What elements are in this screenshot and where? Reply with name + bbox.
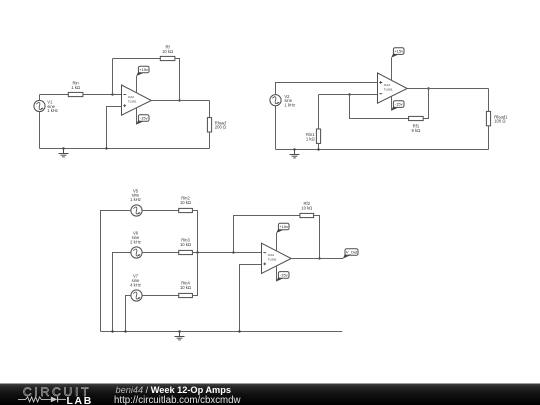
wire down to Rin1 [318, 95, 320, 130]
wire V+ pin OA3 [391, 58, 393, 81]
wire bottom rail circuit2 [276, 149, 489, 151]
wire Rf2 to output node [314, 216, 320, 259]
svg-text:10 kΩ: 10 kΩ [180, 242, 191, 247]
footer bar [0, 384, 540, 405]
svg-text:100 Ω: 100 Ω [494, 119, 505, 124]
svg-text:1 kHz: 1 kHz [47, 108, 58, 113]
svg-text:10 kΩ: 10 kΩ [180, 285, 191, 290]
wire non-inverting input OA4 to rail [240, 265, 262, 332]
svg-text:-15v: -15v [140, 116, 148, 121]
svg-text:2 kHz: 2 kHz [130, 239, 141, 244]
node junction ground node circuit3 [178, 330, 180, 332]
wire V2 top to non-inverting input [276, 83, 378, 95]
voltage source V1 [34, 100, 45, 111]
+15v supply flag OA4 [276, 223, 289, 233]
-15v supply flag OA3 [391, 101, 404, 111]
svg-text:9 kΩ: 9 kΩ [412, 128, 421, 133]
V_Out net flag [343, 249, 358, 259]
svg-text:1 kHz: 1 kHz [284, 102, 295, 107]
wire V- pin OA4 [276, 266, 278, 282]
svg-text:+15v: +15v [279, 224, 288, 229]
wire V+ pin OA2 [136, 76, 138, 93]
wire V7 to Rin4 [142, 295, 179, 297]
V6 label: V6 sine 2 kHz [130, 231, 141, 245]
svg-text:4 kHz: 4 kHz [130, 282, 141, 287]
node junction bus joins input line [196, 251, 198, 253]
svg-text:10 kΩ: 10 kΩ [180, 200, 191, 205]
node junction output node OA4 [318, 257, 320, 259]
node junction feedback tap OA3 [348, 93, 350, 95]
Rin1 label: Rin1 1 kΩ [306, 132, 315, 141]
node junction inverting input node [111, 93, 113, 95]
wire Rload1 bottom lead [488, 126, 490, 150]
resistor Rf2 [300, 213, 314, 217]
svg-text:beni44 / Week 12-Op Amps: beni44 / Week 12-Op Amps [116, 385, 231, 395]
wire Rin1 bottom lead [318, 143, 320, 149]
node junction output node OA2 [178, 99, 180, 101]
resistor Rin4 [179, 293, 193, 297]
wire V6 left to rail [113, 253, 131, 332]
ground symbol circuit2 [290, 150, 300, 158]
node junction V6 rail junction [111, 330, 113, 332]
Rload1 label: Rload1 100 Ω [494, 114, 508, 123]
wire bottom rail circuit1 [40, 148, 210, 150]
node junction plus input to rail [105, 147, 107, 149]
node junction feedback tap OA4 [232, 251, 234, 253]
svg-text:TL081: TL081 [384, 87, 393, 91]
V5 label: V5 sine 1 kHz [130, 188, 141, 202]
wire OA3 output [407, 88, 488, 90]
Rload label: Rload 200 Ω [215, 120, 227, 129]
V1 label: V1 sine 1 kHz [47, 100, 58, 114]
svg-text:1 kΩ: 1 kΩ [71, 85, 80, 90]
Rf1 label: Rf1 9 kΩ [412, 124, 421, 133]
svg-text:1 kΩ: 1 kΩ [306, 136, 315, 141]
svg-text:+15v: +15v [394, 49, 403, 54]
V7 label: V7 sine 4 kHz [130, 274, 141, 288]
+15v supply flag OA2 [136, 66, 149, 76]
wire feedback left vertical [112, 59, 114, 95]
V2 label: V2 sine 1 kHz [284, 94, 295, 108]
Rin2 label: Rin2 10 kΩ [180, 196, 191, 205]
svg-text:200 Ω: 200 Ω [215, 125, 226, 130]
node junction ground node circuit1 [62, 147, 64, 149]
wire V2 bottom lead [275, 106, 277, 150]
node junction output node OA3 [427, 87, 429, 89]
wire Rf to right vertical [175, 59, 180, 101]
wire V- pin OA3 [391, 96, 393, 110]
wire output down to Rload1 [488, 89, 490, 112]
wire V- pin OA2 [136, 108, 138, 125]
node junction ground node circuit2 [293, 148, 295, 150]
wire V+ pin OA4 [276, 233, 278, 251]
op-amp OA2 TL081 [122, 85, 152, 115]
wire feedback up and right to Rf2 [234, 216, 300, 253]
svg-text:V_Out: V_Out [346, 250, 358, 255]
wire feedback down and left to Rf1 [350, 95, 409, 119]
svg-text:http://circuitlab.com/cbxcmdw: http://circuitlab.com/cbxcmdw [114, 395, 242, 405]
Rf2 label: Rf2 10 kΩ [301, 201, 312, 210]
+15v supply flag OA3 [391, 48, 404, 58]
resistor Rload [207, 118, 211, 132]
resistor Rf1 [409, 116, 424, 120]
-15v supply flag OA4 [276, 272, 289, 282]
resistor Rin1 [316, 129, 320, 143]
ground symbol circuit1 [59, 149, 69, 157]
wire Rin2 to bus [192, 211, 197, 253]
svg-text:10 kΩ: 10 kΩ [162, 49, 173, 54]
voltage source V5 [131, 205, 142, 216]
Rf label: Rf 10 kΩ [162, 45, 173, 54]
resistor Rin3 [179, 250, 193, 254]
Rin3 label: Rin3 10 kΩ [180, 238, 191, 247]
wire V6 to Rin3 [142, 252, 179, 254]
wire Rload bottom lead [209, 132, 211, 149]
wire non-inverting input to rail [107, 107, 122, 149]
svg-text:10 kΩ: 10 kΩ [301, 205, 312, 210]
node junction Rin1 to rail [317, 148, 319, 150]
wire V1 top lead [39, 95, 41, 101]
wire V7 left to rail [126, 296, 131, 332]
wire OA4 output [291, 258, 343, 260]
wire bottom rail circuit3 [101, 331, 343, 333]
svg-text:1 kHz: 1 kHz [130, 197, 141, 202]
svg-text:LAB: LAB [67, 396, 93, 405]
-15v supply flag OA2 [136, 115, 149, 125]
svg-text:TL081: TL081 [128, 99, 137, 103]
svg-text:+15v: +15v [139, 67, 148, 72]
resistor Rf [160, 56, 175, 60]
resistor Rload1 [486, 111, 490, 125]
op-amp OA4 TL081 [262, 243, 292, 273]
wire Rf1 to output node [423, 89, 428, 119]
resistor Rin [68, 92, 83, 96]
wire V1 bottom lead [39, 112, 41, 149]
logo resistor zigzag [18, 397, 51, 402]
node junction plus input rail junction [238, 330, 240, 332]
wire V5 to Rin2 [142, 210, 179, 212]
voltage source V6 [131, 247, 142, 258]
wire V1 to Rin [40, 94, 69, 96]
svg-text:-15v: -15v [395, 102, 403, 107]
wire Rin to inverting input [83, 94, 122, 96]
wire Rin4 to bus [192, 253, 197, 296]
voltage source V7 [131, 290, 142, 301]
svg-text:-15v: -15v [280, 272, 288, 277]
ground symbol circuit3 [175, 332, 185, 340]
Rin label: Rin 1 kΩ [71, 81, 80, 90]
svg-text:TL081: TL081 [268, 257, 277, 261]
resistor Rin2 [179, 208, 193, 212]
wire V5 left to rail [101, 211, 131, 332]
Rin4 label: Rin4 10 kΩ [180, 281, 191, 290]
op-amp OA3 TL081 [378, 73, 408, 103]
node junction V7 rail junction [124, 330, 126, 332]
wire feedback top to Rf [113, 58, 161, 60]
wire OA2 output [151, 100, 209, 102]
wire Rin3 to inverting input OA4 [192, 252, 261, 254]
wire inverting input OA3 [319, 94, 378, 96]
logo diode symbol [51, 397, 66, 403]
wire output down to Rload [209, 101, 211, 118]
voltage source V2 [270, 95, 281, 106]
